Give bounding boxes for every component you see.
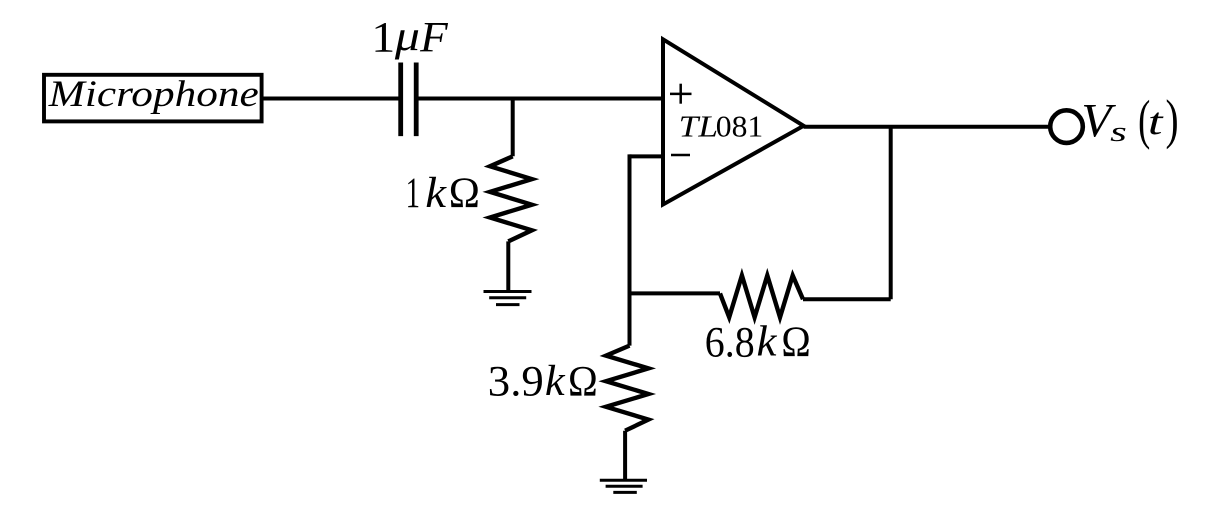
ground G1 bbox=[484, 292, 532, 305]
wire mic to capacitor bbox=[262, 97, 399, 101]
wire minus input down to feedback node bbox=[628, 154, 632, 345]
svg-text:): ) bbox=[1166, 88, 1179, 149]
svg-text:k: k bbox=[545, 358, 566, 405]
microphone box bbox=[44, 75, 262, 122]
resistor R2 6.8k zigzag bbox=[720, 276, 803, 318]
svg-text:081: 081 bbox=[716, 109, 763, 144]
op-amp U1 TL081 triangle bbox=[663, 39, 804, 204]
svg-text:t: t bbox=[1148, 101, 1165, 143]
wire R3 to ground bbox=[623, 431, 627, 481]
svg-text:k: k bbox=[425, 170, 447, 217]
svg-text:k: k bbox=[757, 319, 778, 366]
wire R2 to output node bbox=[803, 297, 891, 301]
capacitor C1 plate right bbox=[414, 63, 419, 137]
svg-text:μ: μ bbox=[394, 13, 420, 60]
wire op-amp minus input stub bbox=[630, 154, 664, 158]
op-amp minus input marking bbox=[671, 154, 690, 157]
svg-text:Ω: Ω bbox=[568, 359, 598, 406]
wire node junction down to R1 bbox=[511, 99, 515, 157]
svg-text:Microphone: Microphone bbox=[48, 73, 259, 114]
wire op-amp output bbox=[804, 125, 1049, 129]
svg-text:Ω: Ω bbox=[781, 319, 810, 366]
svg-text:1: 1 bbox=[406, 170, 420, 217]
wire capacitor to op-amp + input bbox=[419, 97, 664, 101]
svg-text:s: s bbox=[1110, 116, 1127, 148]
svg-text:1: 1 bbox=[371, 15, 395, 62]
wire R1 to ground bbox=[506, 241, 510, 291]
op-amp plus input marking bbox=[670, 84, 692, 104]
capacitor C1 plate left bbox=[398, 63, 403, 137]
ground G2 bbox=[600, 480, 647, 492]
svg-text:Ω: Ω bbox=[449, 170, 480, 217]
svg-text:F: F bbox=[419, 14, 448, 61]
resistor R3 3.9k zigzag bbox=[606, 346, 648, 431]
svg-text:3.9: 3.9 bbox=[488, 359, 544, 406]
wire feedback vertical up to output bbox=[889, 127, 893, 300]
svg-text:TL: TL bbox=[679, 109, 718, 144]
resistor R1 1k zigzag bbox=[490, 156, 532, 241]
output terminal circle bbox=[1050, 110, 1083, 143]
svg-text:6.8: 6.8 bbox=[705, 319, 755, 366]
wire feedback node to R2 bbox=[630, 291, 721, 295]
